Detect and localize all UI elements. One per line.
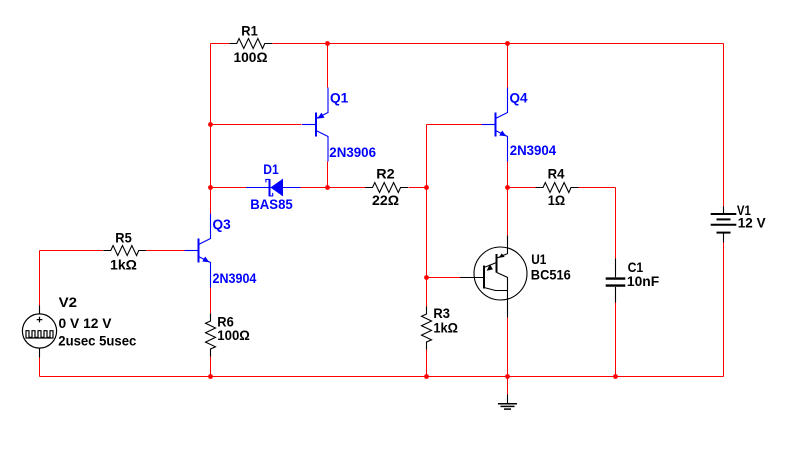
svg-text:R5: R5 bbox=[115, 230, 132, 246]
svg-text:2N3904: 2N3904 bbox=[213, 270, 257, 286]
svg-text:2usec 5usec: 2usec 5usec bbox=[58, 333, 136, 349]
svg-text:BC516: BC516 bbox=[531, 267, 571, 283]
svg-text:Q4: Q4 bbox=[510, 90, 528, 106]
svg-text:Q3: Q3 bbox=[213, 216, 231, 232]
svg-text:1kΩ: 1kΩ bbox=[433, 320, 458, 336]
svg-text:U1: U1 bbox=[531, 251, 546, 267]
svg-text:2N3906: 2N3906 bbox=[329, 144, 376, 160]
svg-text:V2: V2 bbox=[59, 294, 78, 310]
svg-text:R2: R2 bbox=[376, 166, 395, 182]
svg-text:BAS85: BAS85 bbox=[250, 196, 293, 212]
svg-text:Q1: Q1 bbox=[330, 90, 348, 106]
svg-text:R1: R1 bbox=[241, 23, 258, 39]
svg-text:22Ω: 22Ω bbox=[372, 192, 399, 208]
svg-text:12 V: 12 V bbox=[738, 215, 766, 231]
svg-text:2N3904: 2N3904 bbox=[510, 142, 557, 158]
svg-text:1kΩ: 1kΩ bbox=[110, 256, 137, 272]
svg-text:100Ω: 100Ω bbox=[234, 49, 268, 65]
svg-text:0 V 12 V: 0 V 12 V bbox=[59, 315, 113, 331]
svg-text:1Ω: 1Ω bbox=[548, 192, 565, 208]
svg-text:D1: D1 bbox=[263, 161, 279, 177]
svg-text:R4: R4 bbox=[548, 166, 565, 182]
svg-text:10nF: 10nF bbox=[627, 273, 660, 289]
svg-text:100Ω: 100Ω bbox=[217, 327, 250, 343]
